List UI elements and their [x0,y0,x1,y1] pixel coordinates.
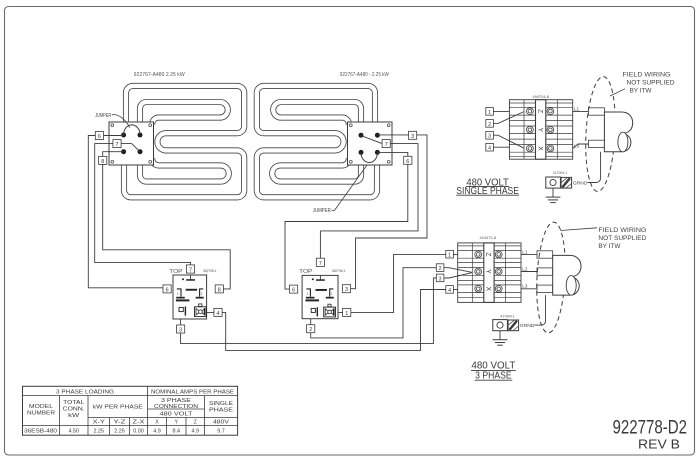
svg-text:8.4: 8.4 [173,428,181,434]
svg-text:8: 8 [218,287,221,293]
ground lug GL1 [546,177,588,188]
specification table [23,386,238,435]
svg-text:4.50: 4.50 [68,428,79,434]
wire label 4 (relay K1 right) [214,308,222,317]
wire label 7 (relay K2 top) [316,258,324,267]
svg-text:0.00: 0.00 [133,428,144,434]
svg-text:3: 3 [345,287,348,293]
wire 6 heater HE2 to relay K2 left [285,152,408,289]
svg-text:2: 2 [439,266,442,272]
svg-text:JUMPER: JUMPER [313,208,331,214]
heater HE1 jumper arc [124,125,140,135]
field wiring ellipse (single phase) [583,76,618,192]
wire 4 bus relay K1 right to 3-phase block [207,290,446,351]
wire label 2 (TB2) [436,264,444,272]
field wiring ellipse (3 phase) [534,221,568,333]
ground lug GL2 [493,320,535,331]
svg-text:922778-D2: 922778-D2 [613,418,688,439]
wire label 1 (relay K2 right) [343,308,351,317]
svg-text:36ESB-480: 36ESB-480 [24,428,57,434]
TB2 L1 output wire [521,249,553,258]
svg-text:410472-8: 410472-8 [480,236,497,240]
wire 8 heater HE1 to relay K1 right [103,152,231,289]
svg-text:Z: Z [485,252,492,256]
svg-text:4.9: 4.9 [192,428,200,434]
TB1 L1 output wire [573,106,605,115]
relay K2 [299,269,345,319]
wire label 1 (TB1) [486,108,494,116]
svg-text:X: X [485,287,492,292]
wire label 7 (relay K1 top) [186,265,194,274]
terminal block TB2 (480V 3 phase) [458,243,521,303]
480 VOLT 3 PHASE caption [471,360,516,382]
svg-text:NUMBER: NUMBER [27,411,55,417]
svg-text:Z: Z [194,420,197,426]
svg-text:Y-Z: Y-Z [114,420,126,426]
svg-text:GRND: GRND [520,323,535,329]
wire label 8 (relay K1 right) [215,285,223,294]
ground wire GL1 to plug [588,152,601,183]
svg-text:382798-1: 382798-1 [332,269,346,273]
svg-text:3: 3 [488,134,491,140]
wire 7 diagonal to terminal [132,144,140,152]
svg-text:382798-1: 382798-1 [203,269,217,273]
heater HE2 element tubes (mirror) [257,86,377,197]
svg-text:4: 4 [488,146,491,152]
svg-text:TOTAL: TOTAL [63,400,84,406]
heater HE2 terminals [359,133,380,155]
ground symbol (single phase) [546,188,561,203]
wire label 3 (heater HE2) [409,131,417,140]
svg-text:NOMINAL AMPS PER PHASE: NOMINAL AMPS PER PHASE [151,389,235,395]
svg-text:7: 7 [116,142,119,148]
svg-text:TOP: TOP [169,269,183,275]
heater HE2 terminal box [348,122,393,165]
wire 3 heater HE2 to relay K2 right [350,135,427,289]
heater HE1 terminals [121,133,142,155]
svg-text:6: 6 [406,159,409,165]
wire label 6 (relay K1 left) [163,285,171,294]
wire 3 bus relay K1 bottom to 3-phase block [181,278,437,344]
svg-text:PHASE: PHASE [209,408,234,414]
svg-text:L1: L1 [522,249,528,254]
wire 7 heater HE2 to relay K2 top [320,136,418,259]
wire label 8 (heater HE1) [99,156,107,165]
svg-text:NOT SUPPLIED: NOT SUPPLIED [598,235,646,242]
terminal block TB1 (480V single phase) [509,100,572,160]
svg-text:kW: kW [68,413,79,419]
svg-text:9.7: 9.7 [217,428,225,434]
svg-text:480 VOLT: 480 VOLT [160,411,193,417]
wire 2 bus relay K2 bottom to 3-phase block [311,268,437,338]
svg-text:6: 6 [98,134,101,140]
svg-text:1: 1 [345,311,348,317]
svg-text:7: 7 [319,261,322,267]
wire 1 relay K2 right to 3-phase block [338,254,446,312]
TB1 L3 output wire [573,140,605,148]
wire label 3 (relay K2 right) [342,285,350,294]
ground symbol (3 phase) [493,331,508,346]
wire label 7 (heater HE1) [113,140,121,149]
svg-text:BY ITW: BY ITW [598,243,621,250]
TB2 input wire stubs [444,254,472,289]
plug connector P1 [604,112,632,152]
svg-text:922767-A480 - 2.25 kW: 922767-A480 - 2.25 kW [340,72,389,78]
svg-text:2: 2 [488,122,491,128]
svg-text:L3: L3 [522,284,528,289]
svg-text:GRND: GRND [573,180,588,186]
wire 6 heater HE1 to relay K1 left [88,136,163,288]
svg-text:JUMPER: JUMPER [95,113,111,119]
wire label 6 (heater HE2) [404,156,412,165]
svg-text:417004-1: 417004-1 [553,171,568,175]
FIELD WIRING leader (bottom) [561,228,598,231]
heater HE1 terminal box [109,122,154,165]
svg-text:L2: L2 [522,266,528,271]
svg-text:Z-X: Z-X [133,420,146,426]
svg-text:X: X [536,146,543,151]
heater HE2 jumper arc [361,153,377,163]
svg-text:3: 3 [411,134,414,140]
FIELD WIRING leader (top) [610,89,625,96]
relay K1 [169,269,216,319]
svg-text:3: 3 [179,328,182,334]
svg-text:480V: 480V [213,420,230,426]
svg-text:Z: Z [536,109,543,113]
svg-text:6: 6 [292,288,295,294]
plug connector P2 [553,255,581,295]
svg-text:Y: Y [536,128,543,133]
svg-text:Y: Y [485,269,492,274]
svg-text:FIELD WIRING: FIELD WIRING [598,227,646,234]
FIELD WIRING note (bottom) [598,227,646,250]
svg-text:7: 7 [385,142,388,148]
svg-text:922767-A480 2.25 kW: 922767-A480 2.25 kW [134,72,185,78]
svg-text:FIELD WIRING: FIELD WIRING [623,71,671,78]
heater HE1 JUMPER label and leader [95,113,130,128]
wire 7 heater HE1 to relay K1 top [95,144,191,265]
svg-text:X-Y: X-Y [93,420,106,426]
svg-text:4: 4 [448,288,451,294]
TB1 wire stubs 1-4 (not connected) [493,111,524,148]
wire label 3 (TB2) [436,274,444,282]
svg-text:3 PHASE: 3 PHASE [475,369,512,381]
svg-text:494704-8: 494704-8 [533,95,550,99]
svg-text:1: 1 [488,110,491,116]
svg-text:BY ITW: BY ITW [630,87,653,94]
svg-text:2.25: 2.25 [94,428,105,434]
svg-text:kW PER PHASE: kW PER PHASE [93,405,144,411]
wire label 4 (TB2) [446,286,454,294]
svg-text:CONN.: CONN. [63,406,85,412]
svg-text:3: 3 [439,276,442,282]
heater HE1 element tubes [124,86,244,197]
wire label 6 (heater HE1) [95,132,103,141]
wire label 3 (TB1) [486,132,494,140]
svg-text:CONNECTION: CONNECTION [154,404,198,410]
wire label 2 (TB1) [486,120,494,128]
wire label 3 (relay K1 bottom) [177,325,185,334]
TB2 L3 output wire [521,284,553,293]
svg-text:3 PHASE LOADING: 3 PHASE LOADING [56,389,114,395]
heater HE2 JUMPER label and leader [313,165,367,214]
svg-text:417004-1: 417004-1 [500,315,515,319]
svg-text:TOP: TOP [299,269,313,275]
wire label 6 (relay K2 left) [290,285,298,294]
svg-text:6: 6 [166,287,169,293]
svg-text:L3: L3 [574,143,580,148]
svg-text:2: 2 [309,327,312,333]
svg-text:8: 8 [101,159,104,165]
table text [27,389,235,425]
svg-text:MODEL: MODEL [29,404,53,410]
ground wire GL2 to plug [535,295,546,325]
480 VOLT SINGLE PHASE caption [456,176,519,197]
svg-text:SINGLE: SINGLE [209,401,234,407]
svg-text:4: 4 [217,311,220,317]
svg-text:2.25: 2.25 [114,428,125,434]
wire label 4 (TB1) [486,143,494,151]
TB2 L2 output wire [521,266,553,275]
FIELD WIRING note (top) [623,71,675,94]
svg-text:L1: L1 [574,106,580,111]
wire label 1 (TB2) [446,250,454,258]
wire label 7 (heater HE2) [382,140,390,149]
wire label 2 (relay K2 bottom) [307,325,315,334]
svg-text:NOT SUPPLIED: NOT SUPPLIED [627,79,675,86]
svg-text:4.9: 4.9 [153,428,161,434]
svg-text:1: 1 [448,253,451,259]
svg-text:7: 7 [189,268,192,274]
svg-text:REV B: REV B [638,437,680,452]
